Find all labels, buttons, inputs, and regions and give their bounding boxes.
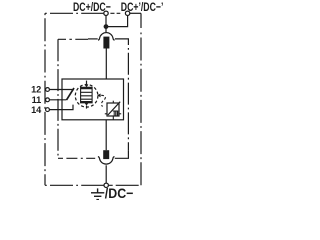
terminal earth/DC- circle [104, 183, 108, 187]
svg-text:14: 14 [31, 105, 42, 115]
spark gap F1 arc electrode (top) [98, 33, 115, 41]
svg-text:DC+’/DC−’: DC+’/DC−’ [121, 0, 164, 14]
inner dash-dot boundary bottom edge left part [58, 157, 96, 159]
wire spark gap F1 right arc to inner boundary corner [115, 39, 128, 41]
inner dash-dot boundary top edge left part [58, 38, 88, 40]
outer enclosure dash-dot border bottom edge [45, 184, 87, 186]
svg-text:DC+/DC−: DC+/DC− [73, 0, 111, 14]
node junction dot [104, 24, 109, 29]
varistor RV1 box [107, 103, 119, 116]
ground symbol [91, 188, 104, 199]
wire contact 14 with open contact post [49, 105, 73, 110]
wire varistor bottom stub [112, 116, 114, 120]
varistor hatched element [113, 111, 118, 116]
varistor diagonal [108, 102, 120, 115]
wire dashed through-connection between DC terminals [110, 12, 120, 14]
spark gap F2 rectangle electrode [103, 150, 109, 159]
terminal DC+'/DC-' circle [125, 11, 129, 15]
actuator arrow bottom [85, 103, 89, 106]
svg-text:11: 11 [32, 95, 42, 105]
wire terminal 1 down to junction [105, 16, 107, 27]
varistor left tick [105, 113, 107, 115]
outer enclosure border right edge [140, 13, 142, 28]
terminal 11 circle [46, 98, 50, 102]
wire spark gap F2 arc to earth terminal [105, 165, 107, 183]
wire contact 12 [49, 89, 74, 91]
disconnector stack rectangle [80, 87, 92, 103]
wire contact 11 [49, 99, 66, 101]
svg-text:/DC−: /DC− [105, 186, 134, 200]
outer enclosure dash-dot border top edge left part [45, 12, 103, 14]
spark gap F1 rectangle electrode [103, 37, 109, 49]
wire component box to spark gap F2 [105, 120, 107, 150]
wire inner boundary to spark gap F1 left arc [88, 38, 98, 40]
wire junction to spark gap arc [105, 27, 107, 32]
wire spark gap F1 to component box [105, 49, 107, 80]
wire from terminal DC+'/DC-' to right border corner [130, 12, 141, 14]
varistor top stub [112, 101, 114, 103]
wire spark gap F2 right arc to inner boundary corner [115, 151, 129, 159]
actuator arrow top [86, 81, 88, 85]
svg-text:12: 12 [31, 85, 41, 95]
inner dash-dot boundary left edge [57, 39, 59, 158]
dashed mechanical linkage to varistor [101, 95, 105, 106]
thermal monitoring dashed circle [75, 85, 98, 108]
inner dash-dot boundary right edge [127, 41, 129, 151]
outer enclosure dash-dot border left edge [44, 13, 46, 185]
switch blade changeover contact [67, 88, 75, 100]
terminal 14 circle [46, 108, 50, 112]
varistor right tick [119, 113, 121, 115]
component box U1 [62, 79, 124, 120]
terminal 12 circle [46, 88, 50, 92]
actuator arrow pointing left at circle [97, 94, 100, 98]
spark gap F2 arc electrode (bottom) [98, 157, 115, 165]
terminal DC+/DC- circle [104, 11, 108, 15]
wire terminal 2 down and left to junction [106, 16, 128, 27]
